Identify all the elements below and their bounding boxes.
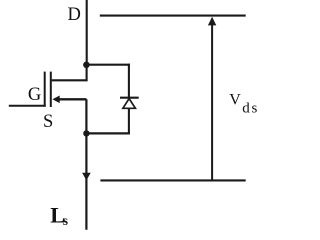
transistor Q1 source arrow (points into channel)	[52, 96, 59, 104]
diode D1 cathode bar	[120, 97, 139, 99]
svg-text:ds: ds	[242, 100, 259, 116]
diode D1 (body diode triangle)	[123, 99, 135, 109]
wire (diode branch lower vertical)	[128, 108, 130, 134]
node (drain junction dot)	[83, 62, 90, 69]
arrow (current direction, downward on source wire)	[82, 173, 91, 181]
wire (top rail)	[100, 15, 246, 17]
wire (drain vertical from top edge to junction)	[86, 0, 88, 65]
svg-text:G: G	[28, 85, 41, 105]
svg-text:V: V	[229, 91, 241, 108]
arrow Vds shaft (measurement arrow between rails)	[211, 24, 213, 181]
node (source junction dot)	[83, 130, 89, 136]
transistor Q1 channel line	[50, 72, 52, 107]
svg-text:s: s	[63, 213, 68, 228]
svg-text:D: D	[68, 5, 81, 25]
wire (source lead of Q1)	[56, 98, 87, 100]
wire (gate lead)	[9, 105, 46, 107]
wire (drain lead of Q1)	[51, 65, 87, 81]
wire (junction to diode branch, top horizontal)	[86, 64, 129, 66]
arrow Vds head (points up to top rail)	[208, 17, 216, 26]
wire (diode branch upper vertical)	[128, 64, 130, 98]
wire (source vertical down to bottom)	[85, 99, 87, 230]
transistor Q1 gate electrode line	[44, 72, 46, 107]
wire (bottom rail)	[100, 179, 245, 181]
svg-text:S: S	[43, 112, 53, 132]
wire (source junction to diode branch, bottom horizontal)	[86, 132, 129, 134]
